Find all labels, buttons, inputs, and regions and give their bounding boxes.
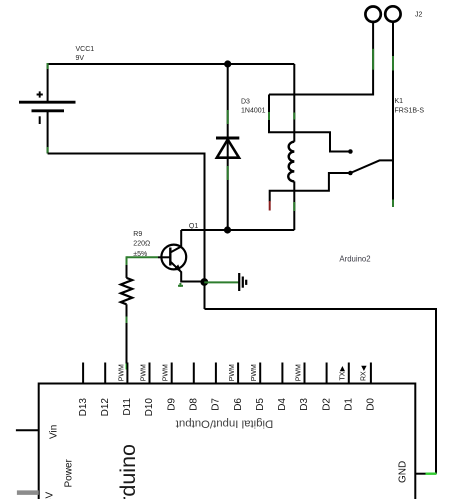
green emitter pin tip vertical bbox=[179, 283, 181, 287]
pin D2 bbox=[326, 363, 328, 384]
relay switch lever bbox=[350, 160, 393, 173]
wire right edge down to arduino gnd bbox=[435, 308, 437, 474]
svg-text:D8: D8 bbox=[189, 398, 200, 411]
svg-text:PWM: PWM bbox=[296, 364, 303, 381]
svg-text:PWM: PWM bbox=[163, 364, 170, 381]
pin 5V grey stub bbox=[17, 490, 39, 495]
svg-text:D3: D3 bbox=[299, 398, 310, 411]
bright green gnd wire end bbox=[426, 473, 437, 475]
svg-text:D5: D5 bbox=[255, 398, 266, 411]
svg-text:Q1: Q1 bbox=[189, 223, 198, 230]
green pin resistor bottom bbox=[126, 317, 128, 324]
RX arrow bbox=[361, 366, 366, 371]
relay contact2 dot bbox=[348, 171, 353, 176]
battery VCC1 positive plate bbox=[19, 101, 76, 104]
svg-text:D10: D10 bbox=[144, 398, 155, 417]
diode D3 triangle bbox=[217, 140, 239, 158]
pin D13 bbox=[82, 363, 84, 384]
wire relay contact2 path bbox=[270, 173, 351, 202]
red unconnected relay pin bbox=[269, 201, 271, 211]
ground symbol bar1 bbox=[238, 273, 240, 291]
wire J2 pin1 bbox=[269, 23, 373, 95]
wire bottom rail battery to down riser bbox=[48, 153, 205, 155]
ground symbol bar3 bbox=[245, 280, 247, 285]
pin D11 bbox=[126, 363, 128, 384]
resistor R9 top lead bbox=[126, 265, 128, 278]
green emitter pin tip bbox=[178, 285, 183, 287]
TX arrow bbox=[340, 366, 345, 371]
wire relay coil riser bbox=[293, 64, 295, 142]
transistor Q1 circle bbox=[161, 245, 186, 270]
pin D3 bbox=[304, 363, 306, 384]
pin D7 bbox=[215, 363, 217, 384]
wire gnd rail to right bbox=[205, 308, 437, 310]
svg-text:K1: K1 bbox=[395, 98, 404, 105]
green pin diode cathode bbox=[227, 110, 229, 124]
svg-text:Vin: Vin bbox=[49, 425, 60, 439]
svg-text:FRS1B-S: FRS1B-S bbox=[395, 108, 425, 115]
transistor Q1 emitter arrow bbox=[174, 264, 181, 271]
green pin relay coil bottom bbox=[293, 202, 295, 211]
green pin diode anode bbox=[227, 166, 229, 180]
svg-text:PWM: PWM bbox=[229, 364, 236, 381]
svg-text:D3: D3 bbox=[241, 99, 250, 106]
pin D4 bbox=[281, 363, 283, 384]
wire J2 pin2 down to relay pole bbox=[392, 23, 394, 200]
svg-text:Digital Input/Output: Digital Input/Output bbox=[175, 417, 273, 429]
svg-text:Power: Power bbox=[64, 458, 75, 487]
wire riser down to gnd rail bbox=[204, 153, 206, 310]
svg-text:D4: D4 bbox=[277, 398, 288, 411]
transistor Q1 emitter lead bbox=[170, 262, 204, 282]
resistor R9 top lead green bbox=[126, 256, 128, 265]
svg-text:D0: D0 bbox=[366, 398, 377, 411]
wire base green from resistor bbox=[127, 256, 159, 258]
pin D1 bbox=[348, 363, 350, 384]
green pin relay coil top leg bbox=[293, 113, 295, 120]
svg-text:9V: 9V bbox=[76, 55, 85, 62]
svg-text:D2: D2 bbox=[321, 398, 332, 411]
svg-text:D9: D9 bbox=[166, 398, 177, 411]
svg-text:D11: D11 bbox=[122, 398, 133, 416]
pin D0 bbox=[370, 363, 372, 384]
svg-text:220Ω: 220Ω bbox=[133, 241, 150, 248]
battery minus sign bbox=[39, 116, 41, 124]
svg-text:D6: D6 bbox=[233, 398, 244, 411]
green pin relay coil top bbox=[268, 112, 270, 120]
pin D9 bbox=[171, 363, 173, 384]
wire resistor to D11 bbox=[126, 323, 128, 364]
resistor R9 bottom lead bbox=[126, 304, 128, 316]
connector J2 circle1 bbox=[365, 7, 380, 22]
wire relay contact1 path from J2 node bbox=[269, 95, 350, 152]
svg-text:5V: 5V bbox=[45, 491, 56, 499]
pin D8 bbox=[193, 363, 195, 384]
wire relay coil bottom lead bbox=[293, 181, 295, 230]
ground symbol bar2 bbox=[242, 277, 244, 288]
wire collector rail bbox=[181, 229, 294, 231]
pin Vin stub bbox=[16, 429, 39, 431]
svg-text:VCC1: VCC1 bbox=[76, 46, 95, 53]
svg-text:D13: D13 bbox=[78, 398, 89, 417]
diode D3 cathode bar bbox=[216, 137, 239, 140]
wire base black to bar bbox=[158, 256, 170, 258]
wire battery negative lead bbox=[47, 111, 49, 154]
arduino board left edge bbox=[38, 383, 40, 499]
pin D5 bbox=[259, 363, 261, 384]
green relay pole pin bbox=[392, 200, 394, 208]
svg-text:TX: TX bbox=[339, 371, 346, 380]
pin D10 bbox=[149, 363, 151, 384]
green pin J2 pin2 bbox=[392, 56, 394, 71]
arduino GND pin stub bbox=[415, 473, 425, 475]
arduino board top edge bbox=[39, 383, 416, 385]
transistor Q1 base bar bbox=[169, 248, 171, 266]
pin D6 bbox=[237, 363, 239, 384]
svg-text:PWM: PWM bbox=[141, 364, 148, 381]
relay K1 coil bbox=[288, 142, 294, 182]
green pin battery bottom bbox=[47, 147, 49, 154]
relay contact1 dot bbox=[348, 149, 353, 154]
junction dot top rail / diode bbox=[224, 60, 231, 67]
svg-text:R9: R9 bbox=[133, 231, 142, 238]
junction dot collector rail / diode bbox=[224, 226, 231, 233]
wire diode branch vertical bbox=[227, 64, 229, 230]
arduino board right edge bbox=[414, 383, 416, 499]
svg-text:±5%: ±5% bbox=[133, 251, 147, 258]
svg-text:D1: D1 bbox=[344, 398, 355, 411]
bright green wire end at D11 bbox=[126, 364, 128, 370]
svg-text:PWM: PWM bbox=[251, 364, 258, 381]
svg-text:D12: D12 bbox=[100, 398, 111, 417]
svg-text:PWM: PWM bbox=[118, 364, 125, 381]
pin D12 bbox=[104, 363, 106, 384]
green pin battery top bbox=[47, 63, 49, 69]
green pin J2 pin1 bbox=[372, 49, 374, 70]
svg-text:J2: J2 bbox=[415, 12, 423, 19]
resistor R9 zigzag bbox=[121, 278, 132, 304]
svg-text:Arduino: Arduino bbox=[116, 444, 140, 499]
connector J2 circle2 bbox=[385, 6, 400, 21]
battery VCC1 negative plate bbox=[32, 109, 65, 112]
svg-text:GND: GND bbox=[398, 461, 409, 483]
svg-text:Arduino2: Arduino2 bbox=[339, 255, 370, 264]
wire emitter to ground symbol green bbox=[204, 281, 239, 283]
wire battery positive lead bbox=[47, 63, 49, 102]
wire top rail from battery to relay coil riser bbox=[48, 63, 295, 65]
svg-text:D7: D7 bbox=[211, 398, 222, 411]
svg-text:RX: RX bbox=[361, 371, 368, 381]
battery plus sign bbox=[37, 91, 43, 97]
transistor Q1 collector lead bbox=[170, 230, 181, 253]
svg-text:1N4001: 1N4001 bbox=[241, 108, 266, 115]
junction dot emitter / gnd rail bbox=[200, 278, 208, 286]
